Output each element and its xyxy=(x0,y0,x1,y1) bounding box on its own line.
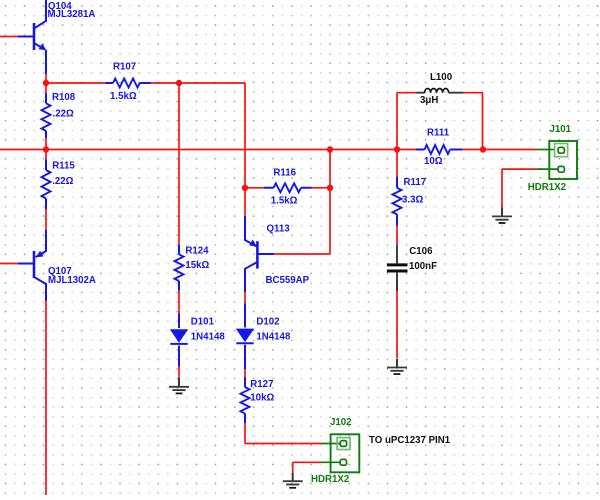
svg-text:R115: R115 xyxy=(52,161,75,172)
svg-text:R117: R117 xyxy=(404,177,427,188)
svg-text:MJL3281A: MJL3281A xyxy=(48,9,96,20)
svg-text:HDR1X2: HDR1X2 xyxy=(311,474,349,485)
svg-text:3.3Ω: 3.3Ω xyxy=(402,194,423,205)
svg-text:L100: L100 xyxy=(430,72,452,83)
svg-text:R116: R116 xyxy=(273,167,296,178)
svg-text:R107: R107 xyxy=(113,61,136,72)
svg-text:1.5kΩ: 1.5kΩ xyxy=(271,195,298,206)
svg-text:1.5kΩ: 1.5kΩ xyxy=(110,91,137,102)
svg-text:1N4148: 1N4148 xyxy=(191,332,226,343)
svg-text:TO uPC1237 PIN1: TO uPC1237 PIN1 xyxy=(369,435,451,446)
svg-text:15kΩ: 15kΩ xyxy=(185,260,209,271)
svg-text:R127: R127 xyxy=(250,379,273,390)
svg-text:J102: J102 xyxy=(330,417,352,428)
svg-text:1N4148: 1N4148 xyxy=(256,332,291,343)
svg-text:D102: D102 xyxy=(256,317,279,328)
svg-text:J101: J101 xyxy=(550,124,572,135)
svg-text:.22Ω: .22Ω xyxy=(53,109,74,120)
svg-text:Q113: Q113 xyxy=(267,223,291,234)
svg-text:10Ω: 10Ω xyxy=(424,156,443,167)
svg-text:R108: R108 xyxy=(52,92,76,103)
svg-text:HDR1X2: HDR1X2 xyxy=(528,182,566,193)
svg-text:R124: R124 xyxy=(185,246,209,257)
svg-text:C106: C106 xyxy=(409,246,433,257)
svg-text:R111: R111 xyxy=(427,128,450,139)
svg-text:10kΩ: 10kΩ xyxy=(250,393,274,404)
svg-text:D101: D101 xyxy=(191,317,215,328)
svg-text:BC559AP: BC559AP xyxy=(266,275,310,286)
svg-text:MJL1302A: MJL1302A xyxy=(48,275,96,286)
svg-text:3μH: 3μH xyxy=(420,95,438,106)
svg-text:100nF: 100nF xyxy=(409,261,437,272)
svg-text:.22Ω: .22Ω xyxy=(52,176,73,187)
